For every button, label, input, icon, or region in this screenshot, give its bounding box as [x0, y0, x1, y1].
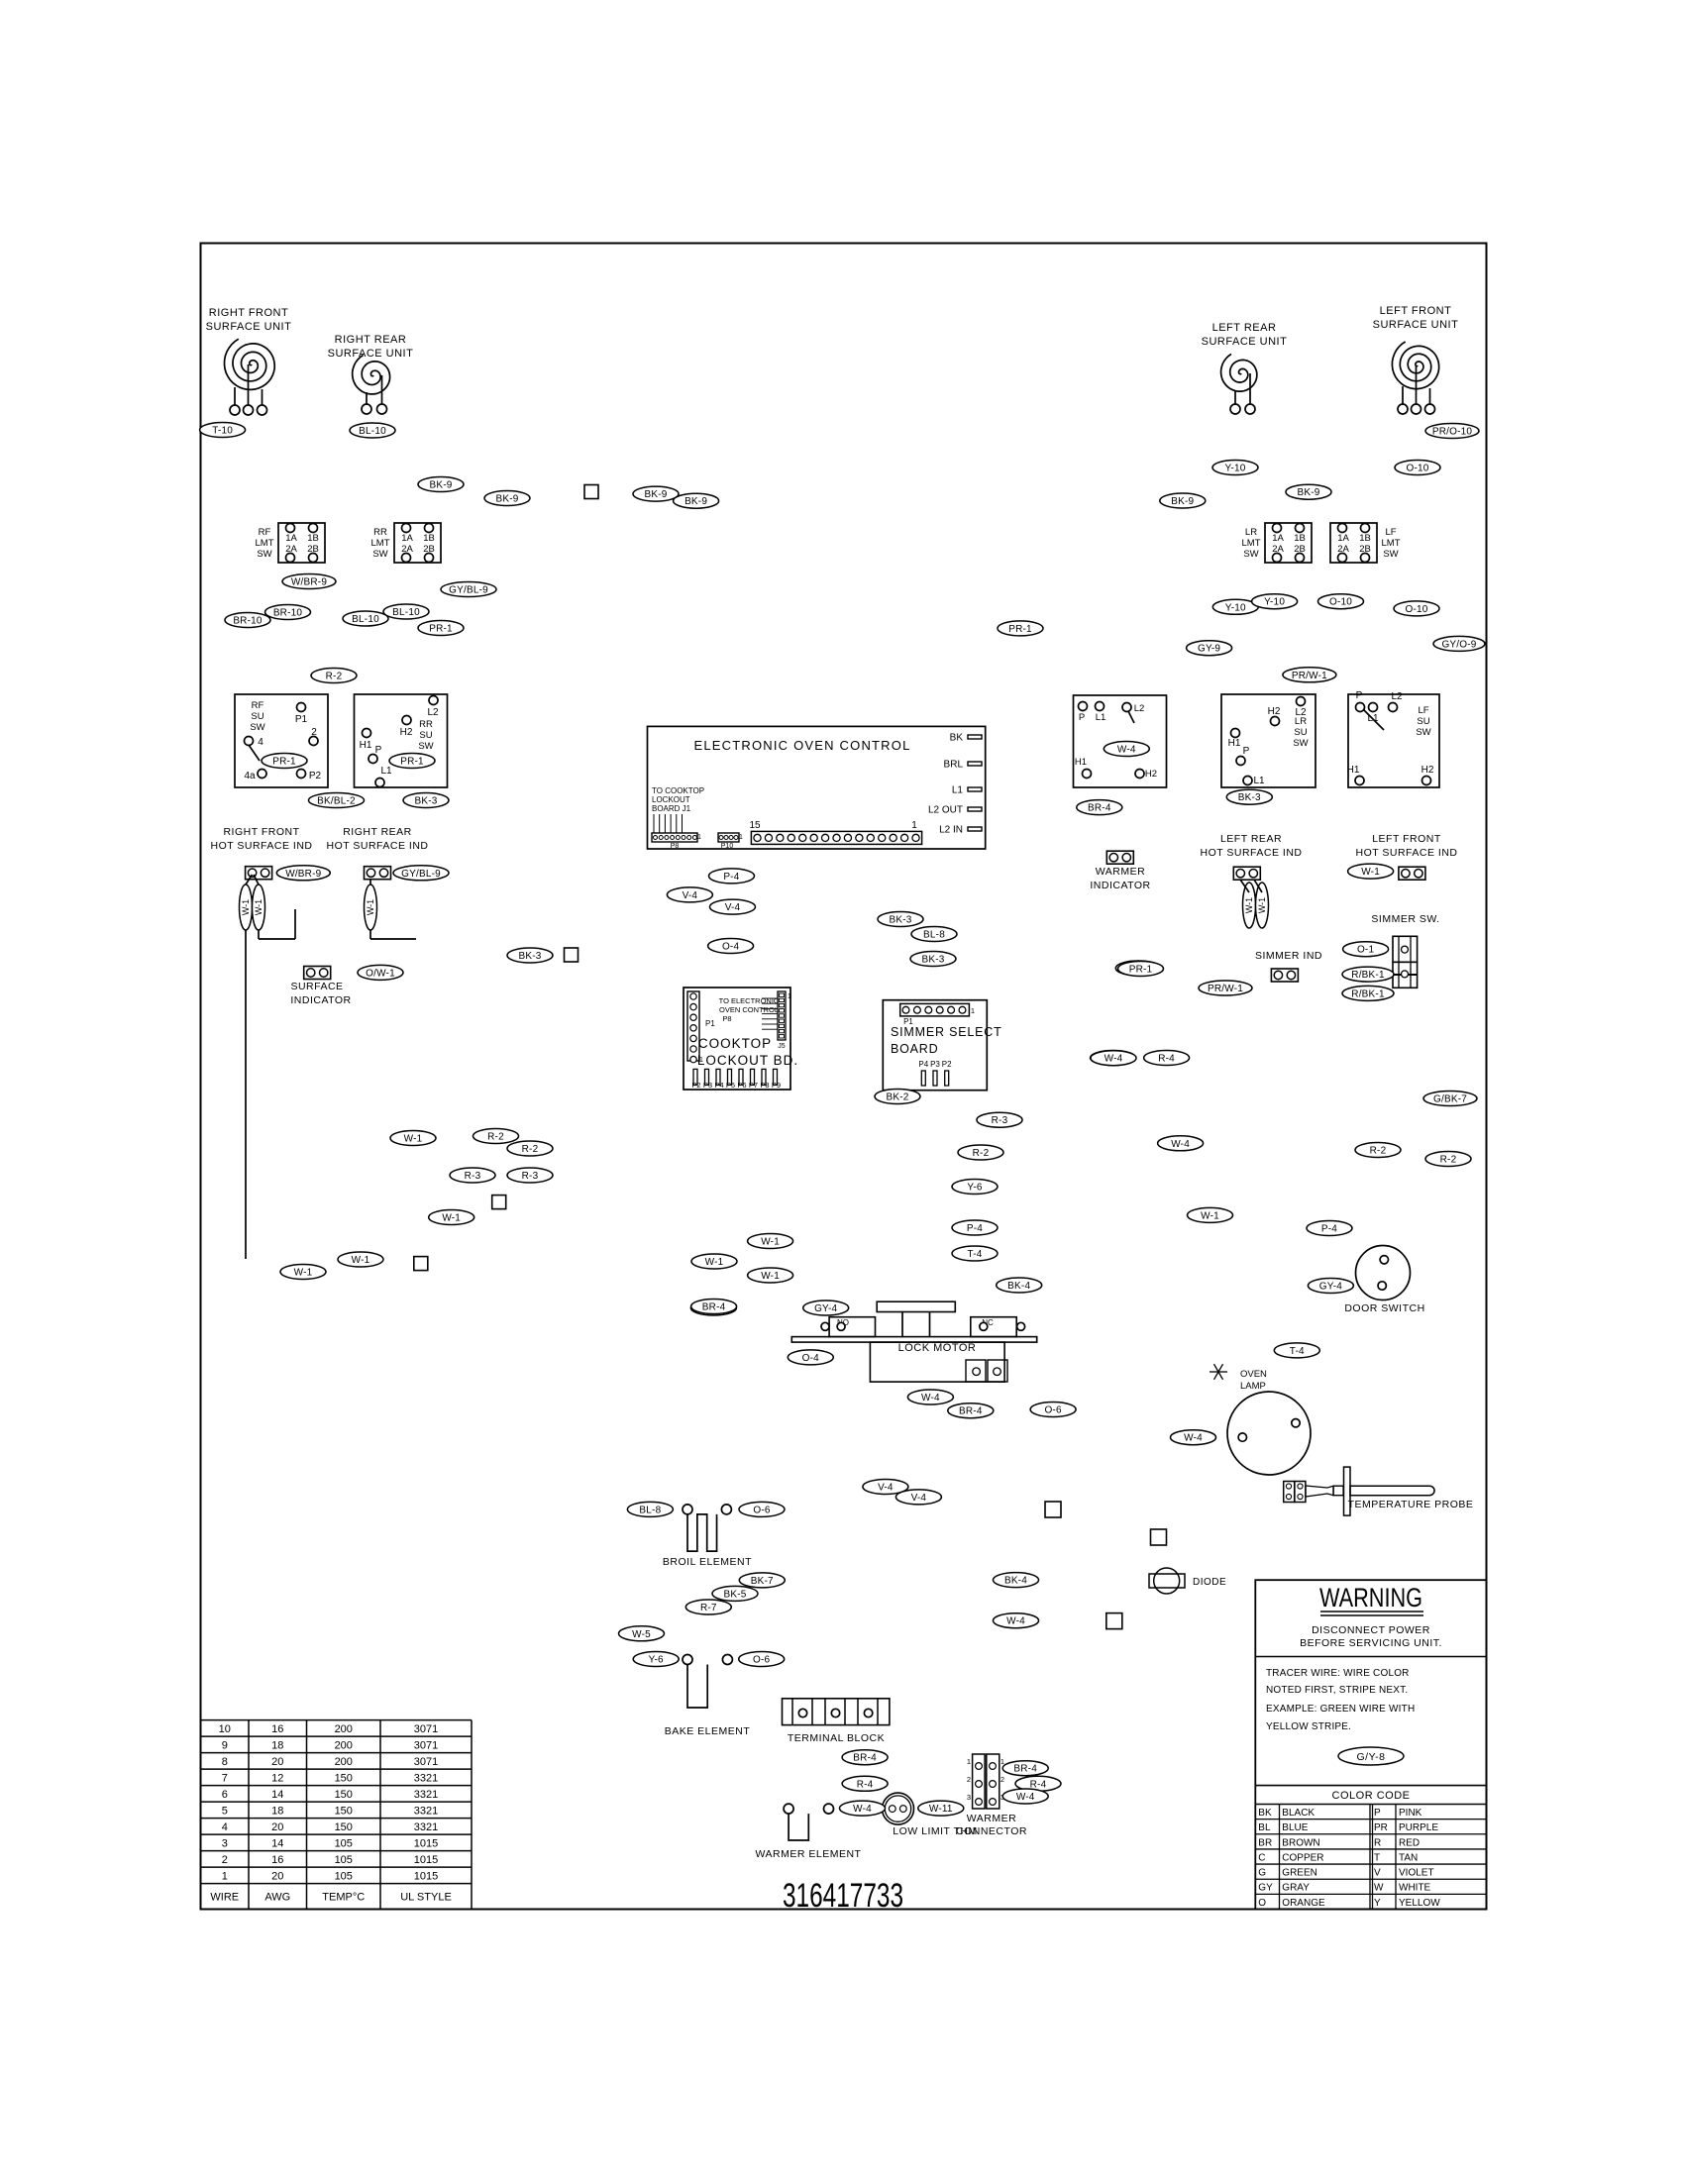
svg-text:O-6: O-6	[753, 1655, 771, 1666]
svg-text:16: 16	[271, 1854, 283, 1866]
svg-text:BR-4: BR-4	[959, 1406, 983, 1417]
svg-text:O: O	[1258, 1898, 1266, 1909]
svg-text:SW: SW	[418, 741, 433, 752]
svg-text:BK-9: BK-9	[1171, 496, 1194, 507]
svg-text:18: 18	[271, 1806, 283, 1818]
svg-text:BK-3: BK-3	[414, 796, 437, 807]
svg-text:O-1: O-1	[1357, 945, 1375, 956]
svg-text:150: 150	[335, 1821, 353, 1833]
svg-text:R-2: R-2	[1370, 1146, 1387, 1157]
svg-text:COLOR CODE: COLOR CODE	[1332, 1790, 1411, 1802]
svg-text:14: 14	[271, 1838, 283, 1850]
svg-text:W-4: W-4	[1016, 1792, 1035, 1803]
svg-text:TO COOKTOP: TO COOKTOP	[652, 786, 704, 795]
svg-text:O-4: O-4	[802, 1353, 820, 1364]
svg-text:Y-10: Y-10	[1224, 464, 1245, 474]
svg-text:RIGHT REAR: RIGHT REAR	[335, 334, 407, 346]
svg-text:2: 2	[967, 1775, 971, 1784]
svg-text:PURPLE: PURPLE	[1399, 1822, 1438, 1833]
svg-text:LF: LF	[1385, 527, 1396, 538]
svg-text:BL-10: BL-10	[392, 607, 420, 618]
svg-text:R/BK-1: R/BK-1	[1351, 970, 1385, 981]
svg-text:W-1: W-1	[1244, 897, 1254, 913]
svg-text:J5: J5	[778, 1043, 786, 1050]
svg-text:GY/BL-9: GY/BL-9	[449, 585, 488, 596]
svg-text:SIMMER SELECT: SIMMER SELECT	[891, 1025, 1002, 1039]
svg-text:R-3: R-3	[992, 1115, 1008, 1126]
svg-text:W-1: W-1	[1257, 897, 1267, 913]
svg-text:200: 200	[335, 1740, 353, 1752]
svg-text:105: 105	[335, 1871, 353, 1883]
svg-text:ELECTRONIC OVEN CONTROL: ELECTRONIC OVEN CONTROL	[693, 738, 910, 753]
svg-text:W-1: W-1	[442, 1213, 461, 1224]
svg-text:P-4: P-4	[723, 872, 739, 883]
svg-text:CONNECTOR: CONNECTOR	[956, 1825, 1027, 1837]
svg-text:INDICATOR: INDICATOR	[290, 994, 351, 1006]
svg-text:12: 12	[271, 1773, 283, 1785]
svg-text:BR: BR	[1258, 1837, 1272, 1848]
svg-text:W-1: W-1	[404, 1134, 423, 1145]
svg-text:UL STYLE: UL STYLE	[400, 1892, 452, 1904]
svg-text:PR-1: PR-1	[1008, 624, 1032, 635]
svg-text:SURFACE UNIT: SURFACE UNIT	[206, 321, 292, 333]
svg-text:YELLOW STRIPE.: YELLOW STRIPE.	[1266, 1721, 1351, 1732]
svg-text:1: 1	[971, 1006, 975, 1015]
svg-text:R-4: R-4	[857, 1779, 874, 1790]
svg-text:P5: P5	[726, 1081, 735, 1090]
svg-text:1015: 1015	[414, 1838, 438, 1850]
svg-text:P9: P9	[772, 1081, 781, 1090]
svg-text:W-11: W-11	[929, 1804, 953, 1815]
svg-text:H1: H1	[1075, 757, 1087, 768]
svg-text:W-1: W-1	[1361, 867, 1380, 878]
svg-text:RED: RED	[1399, 1837, 1420, 1848]
svg-text:BL-8: BL-8	[923, 930, 945, 941]
svg-text:WARMER: WARMER	[967, 1813, 1016, 1824]
svg-text:GY-4: GY-4	[814, 1303, 837, 1314]
svg-text:P1: P1	[705, 1019, 715, 1028]
svg-text:3321: 3321	[414, 1806, 438, 1818]
svg-text:TEMPERATURE PROBE: TEMPERATURE PROBE	[1348, 1499, 1474, 1510]
svg-text:G/Y-8: G/Y-8	[1357, 1751, 1386, 1763]
svg-text:PR/W-1: PR/W-1	[1292, 671, 1327, 681]
svg-text:W-4: W-4	[1006, 1616, 1025, 1627]
svg-text:O-6: O-6	[1044, 1405, 1062, 1416]
svg-text:BR-4: BR-4	[1013, 1764, 1037, 1775]
svg-text:PINK: PINK	[1399, 1808, 1422, 1819]
svg-text:RF: RF	[259, 527, 271, 538]
svg-text:V-4: V-4	[683, 890, 698, 901]
svg-text:W-1: W-1	[1201, 1210, 1219, 1221]
svg-text:P2: P2	[691, 1081, 700, 1090]
svg-text:2B: 2B	[307, 544, 319, 555]
svg-text:DIODE: DIODE	[1193, 1577, 1226, 1588]
svg-text:2A: 2A	[1272, 544, 1284, 555]
svg-text:2B: 2B	[423, 544, 435, 555]
svg-text:R-7: R-7	[700, 1603, 717, 1613]
svg-text:PR: PR	[1374, 1822, 1388, 1833]
svg-text:PR/O-10: PR/O-10	[1432, 427, 1473, 438]
svg-text:3321: 3321	[414, 1789, 438, 1801]
svg-text:1A: 1A	[401, 533, 413, 544]
svg-text:LMT: LMT	[256, 538, 274, 549]
svg-text:Y-10: Y-10	[1225, 602, 1246, 613]
svg-text:BK-4: BK-4	[1007, 1281, 1030, 1292]
svg-text:W-1: W-1	[705, 1257, 724, 1268]
svg-text:P-4: P-4	[1321, 1224, 1337, 1235]
svg-text:TEMP°C: TEMP°C	[322, 1892, 365, 1904]
svg-text:W-4: W-4	[1105, 1054, 1123, 1065]
svg-text:RIGHT REAR: RIGHT REAR	[343, 826, 412, 838]
svg-text:P: P	[1079, 712, 1085, 723]
svg-text:L1: L1	[380, 766, 392, 777]
svg-text:LEFT FRONT: LEFT FRONT	[1380, 305, 1452, 317]
svg-text:BK-3: BK-3	[1238, 792, 1261, 803]
svg-text:OVEN CONTROL: OVEN CONTROL	[719, 1005, 779, 1014]
svg-text:P1: P1	[295, 714, 308, 725]
svg-text:R-3: R-3	[465, 1171, 481, 1182]
svg-text:P-4: P-4	[967, 1223, 983, 1234]
svg-text:GY/BL-9: GY/BL-9	[401, 869, 441, 880]
svg-text:P: P	[1374, 1808, 1381, 1819]
svg-text:T-4: T-4	[967, 1249, 982, 1260]
svg-text:P3: P3	[703, 1081, 712, 1090]
svg-text:W-1: W-1	[352, 1255, 370, 1266]
svg-text:WARMER ELEMENT: WARMER ELEMENT	[756, 1848, 862, 1860]
svg-text:BK: BK	[1258, 1808, 1272, 1819]
svg-text:BR-4: BR-4	[853, 1753, 877, 1764]
svg-text:W/BR-9: W/BR-9	[291, 577, 327, 588]
svg-text:COPPER: COPPER	[1282, 1852, 1323, 1863]
svg-text:OVEN: OVEN	[1240, 1369, 1267, 1380]
svg-text:GRAY: GRAY	[1282, 1883, 1310, 1894]
svg-text:H1: H1	[1347, 765, 1360, 776]
svg-text:9: 9	[222, 1740, 228, 1752]
svg-text:1: 1	[1000, 1757, 1004, 1766]
svg-text:TERMINAL BLOCK: TERMINAL BLOCK	[788, 1732, 885, 1744]
svg-text:DOOR SWITCH: DOOR SWITCH	[1344, 1302, 1424, 1314]
svg-text:LMT: LMT	[371, 538, 390, 549]
svg-text:1A: 1A	[1337, 533, 1349, 544]
svg-text:2A: 2A	[401, 544, 413, 555]
svg-text:8: 8	[222, 1756, 228, 1768]
svg-text:Y: Y	[1374, 1898, 1381, 1909]
svg-text:P4: P4	[918, 1060, 928, 1069]
svg-text:4a: 4a	[244, 771, 256, 781]
svg-text:1: 1	[222, 1871, 228, 1883]
svg-text:BL: BL	[1258, 1822, 1271, 1833]
svg-text:SW: SW	[250, 722, 264, 733]
svg-text:RR: RR	[419, 719, 433, 730]
svg-text:YELLOW: YELLOW	[1399, 1898, 1440, 1909]
svg-text:Y-10: Y-10	[1264, 597, 1285, 608]
svg-text:V-4: V-4	[911, 1493, 927, 1504]
svg-text:7: 7	[222, 1773, 228, 1785]
svg-text:1: 1	[967, 1757, 971, 1766]
svg-text:BK-9: BK-9	[644, 489, 667, 500]
svg-text:BR-10: BR-10	[233, 616, 263, 627]
svg-text:2A: 2A	[285, 544, 297, 555]
svg-text:150: 150	[335, 1789, 353, 1801]
svg-text:BK-3: BK-3	[518, 951, 541, 962]
svg-text:G: G	[1258, 1868, 1266, 1879]
svg-text:O-10: O-10	[1406, 464, 1428, 474]
svg-text:W-1: W-1	[761, 1237, 780, 1248]
svg-text:W-1: W-1	[366, 899, 375, 915]
svg-text:P: P	[1356, 690, 1363, 701]
svg-text:RIGHT FRONT: RIGHT FRONT	[223, 826, 299, 838]
svg-text:SU: SU	[419, 730, 432, 741]
svg-text:P10: P10	[721, 843, 734, 850]
svg-text:Y-6: Y-6	[649, 1655, 664, 1666]
svg-text:SURFACE UNIT: SURFACE UNIT	[1202, 336, 1288, 348]
svg-text:BL-8: BL-8	[639, 1505, 661, 1515]
svg-text:L2: L2	[1134, 703, 1145, 714]
svg-text:150: 150	[335, 1773, 353, 1785]
svg-text:WIRE: WIRE	[210, 1892, 239, 1904]
svg-text:NOTED FIRST, STRIPE NEXT.: NOTED FIRST, STRIPE NEXT.	[1266, 1685, 1408, 1696]
svg-text:PR/W-1: PR/W-1	[1208, 984, 1243, 994]
svg-text:BOARD: BOARD	[891, 1042, 938, 1056]
svg-text:P4: P4	[714, 1081, 723, 1090]
svg-text:GREEN: GREEN	[1282, 1868, 1317, 1879]
svg-text:BR-4: BR-4	[1088, 803, 1111, 814]
svg-text:T: T	[1374, 1852, 1380, 1863]
svg-text:P8: P8	[722, 1014, 731, 1023]
svg-text:20: 20	[271, 1871, 283, 1883]
svg-text:16: 16	[271, 1723, 283, 1735]
svg-text:H1: H1	[360, 740, 372, 751]
svg-text:LOCKOUT: LOCKOUT	[652, 795, 690, 804]
svg-text:BK-3: BK-3	[889, 915, 911, 926]
svg-text:SU: SU	[1294, 727, 1307, 738]
svg-text:P2: P2	[942, 1060, 952, 1069]
svg-text:3: 3	[967, 1793, 971, 1802]
svg-text:W-1: W-1	[241, 899, 251, 915]
svg-text:P2: P2	[309, 771, 322, 781]
svg-text:BK-9: BK-9	[495, 494, 518, 505]
svg-text:W-1: W-1	[254, 899, 263, 915]
svg-text:W-1: W-1	[761, 1271, 780, 1282]
svg-text:200: 200	[335, 1723, 353, 1735]
svg-text:1: 1	[911, 820, 917, 831]
svg-text:W-4: W-4	[1117, 745, 1136, 756]
svg-text:3071: 3071	[414, 1723, 438, 1735]
svg-text:4: 4	[222, 1821, 228, 1833]
svg-text:SW: SW	[1243, 549, 1258, 560]
svg-text:2: 2	[1000, 1775, 1004, 1784]
svg-text:2B: 2B	[1359, 544, 1371, 555]
svg-text:SURFACE UNIT: SURFACE UNIT	[328, 348, 414, 360]
svg-text:LEFT REAR: LEFT REAR	[1212, 322, 1277, 334]
svg-text:P6: P6	[737, 1081, 746, 1090]
svg-text:L1: L1	[952, 785, 964, 796]
svg-text:TRACER WIRE: WIRE COLOR: TRACER WIRE: WIRE COLOR	[1266, 1668, 1410, 1679]
svg-text:20: 20	[271, 1821, 283, 1833]
svg-text:LR: LR	[1245, 527, 1257, 538]
svg-text:O-6: O-6	[753, 1505, 771, 1515]
svg-text:TAN: TAN	[1399, 1852, 1418, 1863]
svg-text:WARMER: WARMER	[1096, 866, 1145, 878]
svg-text:R-2: R-2	[522, 1144, 539, 1155]
svg-text:BK-9: BK-9	[684, 496, 707, 507]
svg-text:P7: P7	[749, 1081, 758, 1090]
svg-text:200: 200	[335, 1756, 353, 1768]
svg-text:1015: 1015	[414, 1871, 438, 1883]
svg-text:1015: 1015	[414, 1854, 438, 1866]
svg-text:150: 150	[335, 1806, 353, 1818]
svg-text:AWG: AWG	[264, 1892, 290, 1904]
svg-text:HOT SURFACE IND: HOT SURFACE IND	[327, 840, 429, 852]
svg-text:18: 18	[271, 1740, 283, 1752]
svg-text:BK-5: BK-5	[723, 1589, 746, 1600]
svg-text:BK/BL-2: BK/BL-2	[317, 796, 356, 807]
svg-text:20: 20	[271, 1756, 283, 1768]
svg-text:R-3: R-3	[522, 1171, 539, 1182]
svg-text:LEFT REAR: LEFT REAR	[1220, 833, 1282, 845]
svg-text:W-4: W-4	[1184, 1433, 1203, 1444]
svg-text:BL-10: BL-10	[359, 426, 386, 437]
svg-text:RF: RF	[252, 700, 264, 711]
svg-text:WHITE: WHITE	[1399, 1883, 1431, 1894]
svg-text:GY/O-9: GY/O-9	[1441, 639, 1476, 650]
svg-text:316417733: 316417733	[783, 1877, 903, 1915]
svg-text:PR-1: PR-1	[400, 757, 424, 768]
svg-text:1: 1	[788, 993, 791, 1000]
svg-text:BROIL ELEMENT: BROIL ELEMENT	[663, 1556, 752, 1568]
svg-text:1: 1	[739, 834, 743, 841]
svg-text:R-4: R-4	[1158, 1054, 1175, 1065]
svg-text:ORANGE: ORANGE	[1282, 1898, 1325, 1909]
svg-text:W/BR-9: W/BR-9	[285, 869, 321, 880]
svg-text:L2: L2	[1391, 691, 1403, 702]
svg-text:14: 14	[271, 1789, 283, 1801]
svg-text:H2: H2	[400, 727, 413, 738]
svg-text:105: 105	[335, 1854, 353, 1866]
svg-text:O-10: O-10	[1329, 597, 1352, 608]
svg-text:W-4: W-4	[853, 1804, 872, 1815]
svg-text:1B: 1B	[423, 533, 435, 544]
svg-text:EXAMPLE: GREEN WIRE WIT: EXAMPLE: GREEN WIRE WITH	[1266, 1704, 1415, 1715]
svg-text:W-1: W-1	[294, 1268, 313, 1279]
svg-text:SU: SU	[251, 711, 263, 722]
svg-text:WARNING: WARNING	[1319, 1583, 1422, 1612]
svg-text:R-2: R-2	[326, 672, 343, 682]
svg-text:BK: BK	[950, 733, 964, 744]
svg-text:BAKE ELEMENT: BAKE ELEMENT	[665, 1725, 751, 1737]
svg-text:G/BK-7: G/BK-7	[1433, 1094, 1467, 1105]
svg-text:T-10: T-10	[212, 426, 233, 437]
svg-text:SU: SU	[1417, 716, 1429, 727]
svg-text:L1: L1	[1096, 712, 1106, 723]
svg-text:W-4: W-4	[921, 1393, 940, 1404]
svg-text:3071: 3071	[414, 1756, 438, 1768]
svg-text:L2: L2	[1295, 707, 1307, 718]
svg-text:DISCONNECT POWER: DISCONNECT POWER	[1312, 1624, 1430, 1636]
svg-text:T-4: T-4	[1290, 1346, 1305, 1357]
svg-text:R/BK-1: R/BK-1	[1351, 988, 1385, 999]
svg-text:R-2: R-2	[1440, 1155, 1457, 1166]
svg-text:2A: 2A	[1337, 544, 1349, 555]
svg-text:L2: L2	[427, 707, 439, 718]
svg-text:GY-9: GY-9	[1198, 644, 1220, 655]
svg-text:R-2: R-2	[487, 1132, 504, 1143]
svg-text:1: 1	[697, 834, 701, 841]
svg-text:BLUE: BLUE	[1282, 1822, 1308, 1833]
svg-text:COOKTOP: COOKTOP	[698, 1036, 772, 1051]
svg-text:SW: SW	[1416, 727, 1430, 738]
svg-text:H2: H2	[1268, 706, 1281, 717]
svg-text:HOT SURFACE IND: HOT SURFACE IND	[1356, 847, 1458, 859]
svg-text:BRL: BRL	[944, 760, 964, 771]
svg-text:BK-3: BK-3	[921, 955, 944, 966]
svg-text:H1: H1	[1228, 738, 1241, 749]
svg-text:BL-10: BL-10	[352, 614, 379, 625]
svg-text:R-2: R-2	[973, 1148, 990, 1159]
svg-text:105: 105	[335, 1838, 353, 1850]
svg-text:3321: 3321	[414, 1821, 438, 1833]
svg-text:1B: 1B	[307, 533, 319, 544]
svg-text:P3: P3	[930, 1060, 940, 1069]
svg-text:R: R	[1374, 1837, 1381, 1848]
svg-text:GY-4: GY-4	[1319, 1282, 1342, 1293]
svg-text:1A: 1A	[285, 533, 297, 544]
svg-text:P8: P8	[671, 843, 680, 850]
svg-text:GY: GY	[1258, 1883, 1273, 1894]
svg-text:SIMMER IND: SIMMER IND	[1255, 950, 1322, 962]
svg-text:BLACK: BLACK	[1282, 1808, 1315, 1819]
svg-text:L1: L1	[1253, 776, 1265, 786]
svg-text:3: 3	[222, 1838, 228, 1850]
svg-text:BROWN: BROWN	[1282, 1837, 1319, 1848]
svg-text:P: P	[1243, 746, 1250, 757]
svg-text:V-4: V-4	[725, 902, 741, 913]
svg-text:6: 6	[222, 1789, 228, 1801]
svg-text:BK-2: BK-2	[886, 1092, 908, 1103]
svg-text:LMT: LMT	[1382, 538, 1401, 549]
svg-text:L2 IN: L2 IN	[939, 825, 963, 836]
svg-text:SW: SW	[1293, 738, 1308, 749]
svg-text:SURFACE: SURFACE	[290, 981, 343, 992]
svg-text:SW: SW	[1383, 549, 1398, 560]
svg-text:1B: 1B	[1359, 533, 1371, 544]
svg-text:1A: 1A	[1272, 533, 1284, 544]
svg-text:H2: H2	[1421, 765, 1434, 776]
svg-text:SW: SW	[372, 549, 387, 560]
svg-text:RR: RR	[373, 527, 387, 538]
svg-text:Y-6: Y-6	[967, 1183, 982, 1194]
svg-text:O-10: O-10	[1405, 604, 1427, 615]
svg-text:2: 2	[222, 1854, 228, 1866]
svg-text:LAMP: LAMP	[1240, 1381, 1266, 1392]
svg-text:RIGHT FRONT: RIGHT FRONT	[209, 307, 288, 319]
svg-text:BK-7: BK-7	[751, 1576, 774, 1587]
svg-text:O/W-1: O/W-1	[366, 968, 395, 979]
svg-text:INDICATOR: INDICATOR	[1090, 880, 1150, 891]
svg-text:PR-1: PR-1	[1129, 965, 1153, 976]
svg-text:LEFT FRONT: LEFT FRONT	[1372, 833, 1441, 845]
svg-text:BR-10: BR-10	[273, 608, 303, 619]
svg-text:HOT SURFACE IND: HOT SURFACE IND	[211, 840, 313, 852]
svg-text:LOCKOUT BD.: LOCKOUT BD.	[697, 1053, 798, 1068]
svg-text:LF: LF	[1418, 705, 1428, 716]
svg-text:3321: 3321	[414, 1773, 438, 1785]
svg-text:10: 10	[219, 1723, 231, 1735]
svg-text:V: V	[1374, 1868, 1381, 1879]
svg-text:H2: H2	[1145, 769, 1157, 780]
svg-text:LOCK MOTOR: LOCK MOTOR	[898, 1342, 977, 1354]
svg-text:P8: P8	[760, 1081, 769, 1090]
